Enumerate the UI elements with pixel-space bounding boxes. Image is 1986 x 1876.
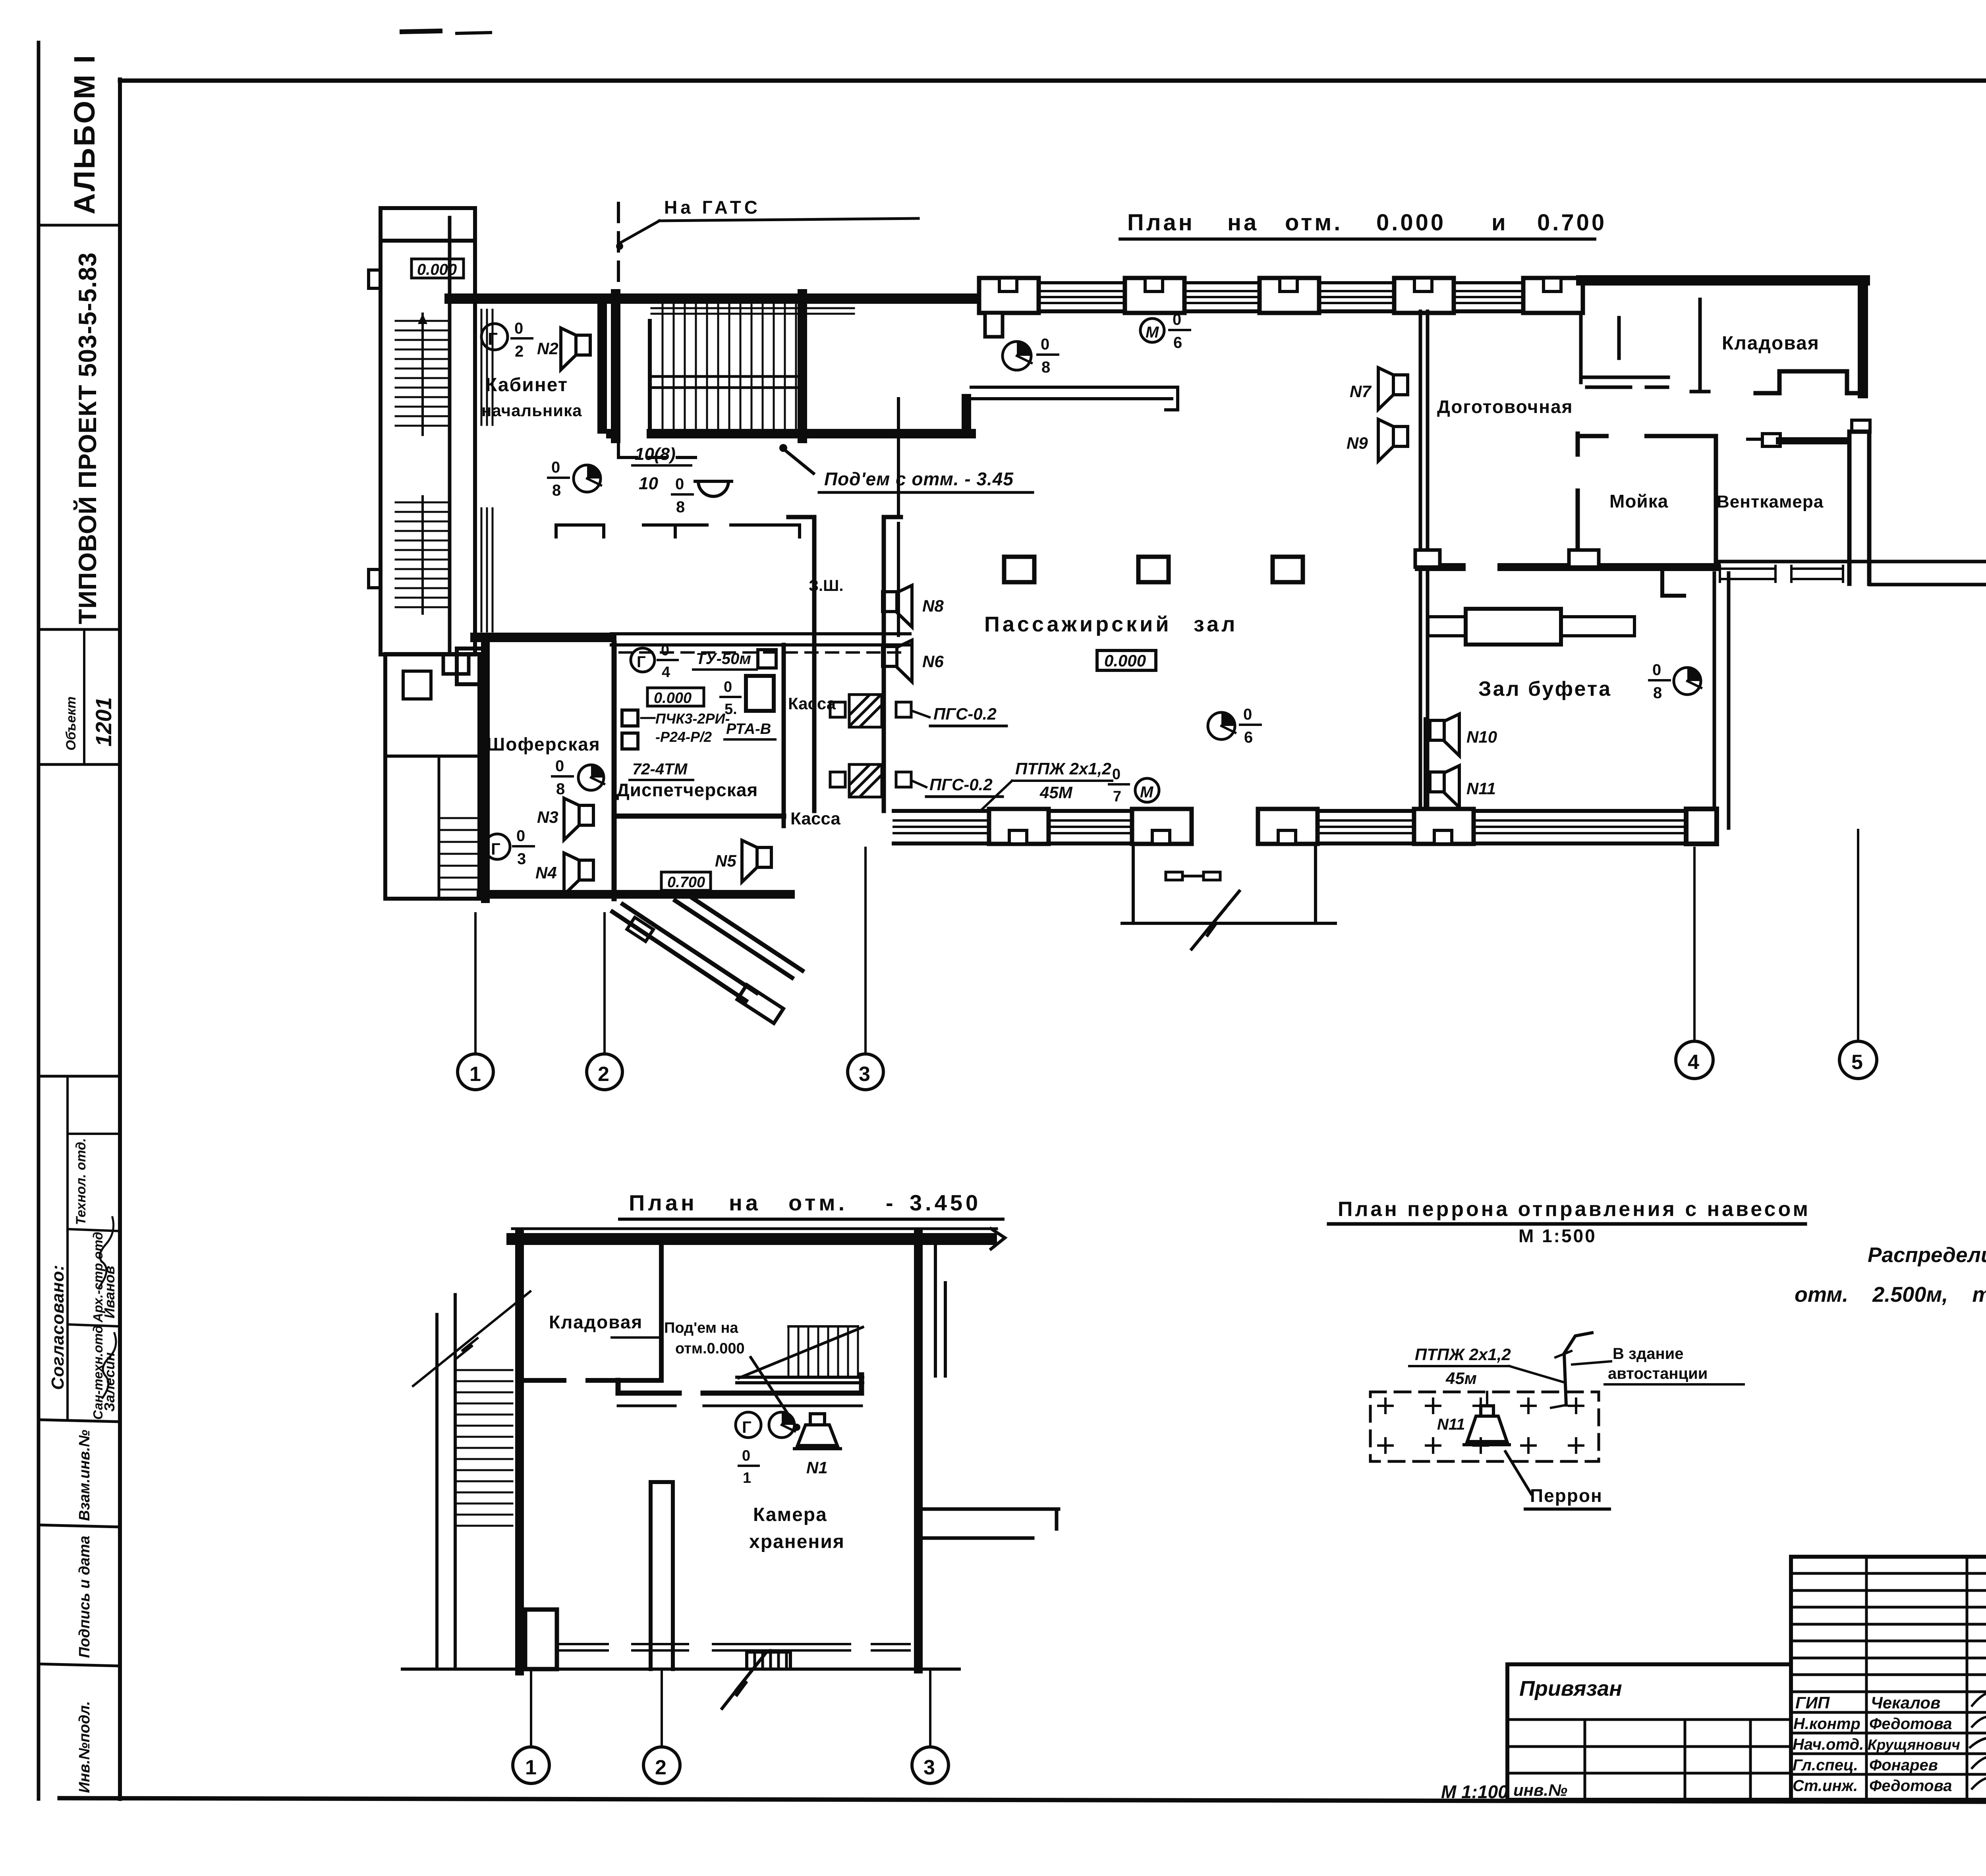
label 10(8)/10 — [635, 444, 676, 493]
svg-text:Кладовая: Кладовая — [1722, 333, 1820, 354]
svg-text:N6: N6 — [922, 652, 944, 671]
storeroom east wall — [1858, 280, 1868, 393]
office west window wall lines — [481, 310, 493, 631]
storeroom partition west — [1691, 299, 1709, 392]
clock symbol with 0/8 in office — [548, 459, 601, 499]
west wing lower stair hatch — [396, 496, 450, 614]
svg-text:N7: N7 — [1350, 382, 1372, 401]
signature grid rows — [1791, 1573, 1986, 1774]
podyem leader to N1 — [751, 1357, 795, 1425]
svg-text:Под'ем на: Под'ем на — [664, 1320, 738, 1336]
lower block west wall — [481, 637, 490, 899]
basement east upper stub — [935, 1238, 945, 1376]
entrance opening — [1182, 805, 1265, 847]
PTPZh perron label — [1409, 1345, 1563, 1388]
basement axis leader 3 — [929, 1671, 931, 1747]
svg-text:РТА-В: РТА-В — [726, 721, 771, 737]
office room label — [481, 374, 582, 420]
dispatcher north wall double — [611, 634, 910, 652]
storage room label — [749, 1504, 845, 1552]
west wing inner wall — [448, 218, 452, 654]
svg-text:Залесин: Залесин — [101, 1352, 118, 1412]
svg-text:ПТПЖ 2х1,2: ПТПЖ 2х1,2 — [1415, 1345, 1511, 1364]
svg-text:4: 4 — [1688, 1051, 1699, 1074]
svg-text:Пассажирский: Пассажирский — [984, 612, 1172, 636]
svg-text:4: 4 — [662, 664, 670, 681]
west annex outline — [385, 654, 479, 899]
svg-text:Зал буфета: Зал буфета — [1478, 677, 1612, 701]
basement bottom wall block — [525, 1610, 557, 1669]
hall mic circle M 0/6 — [1140, 311, 1190, 351]
svg-text:ПГС-0.2: ПГС-0.2 — [929, 775, 993, 794]
north wall of office wing — [450, 293, 981, 304]
svg-text:7: 7 — [1113, 788, 1121, 805]
svg-text:N8: N8 — [922, 596, 944, 615]
speaker N7 — [1350, 368, 1408, 409]
left strip rotated texts — [48, 54, 118, 1793]
svg-text:N9: N9 — [1347, 434, 1368, 452]
speaker N10 — [1430, 714, 1497, 756]
svg-text:0: 0 — [661, 642, 669, 659]
basement ground line — [402, 1668, 959, 1671]
speaker N8 — [883, 585, 944, 627]
svg-text:-: - — [886, 1190, 896, 1215]
corridor wall to hall — [971, 387, 1178, 410]
svg-text:АЛЬБОМ I: АЛЬБОМ I — [68, 54, 101, 214]
svg-text:Технол. отд.: Технол. отд. — [73, 1138, 89, 1225]
basement break symbol — [722, 1652, 767, 1708]
svg-text:В здание: В здание — [1613, 1345, 1684, 1363]
west wing left pier bumps — [369, 270, 381, 288]
svg-text:Иванов: Иванов — [101, 1266, 118, 1318]
top facade window band — [981, 283, 1581, 311]
facade pier 1 — [979, 278, 1039, 337]
svg-text:0: 0 — [516, 827, 525, 845]
svg-text:Диспетчерская: Диспетчерская — [616, 780, 758, 800]
basement west wall — [515, 1233, 524, 1671]
speaker wall stub in buffet — [1424, 719, 1427, 811]
svg-text:отм.: отм. — [1285, 210, 1343, 235]
svg-text:N4: N4 — [535, 863, 557, 882]
facade pier 2 — [1125, 278, 1184, 313]
svg-text:Фонарев: Фонарев — [1869, 1756, 1938, 1774]
cash partition — [782, 645, 786, 826]
svg-text:Камера: Камера — [753, 1504, 827, 1525]
basement internal stair — [737, 1326, 863, 1383]
svg-text:0: 0 — [555, 757, 564, 775]
speaker N5 — [715, 840, 771, 882]
svg-text:0.700: 0.700 — [667, 874, 705, 891]
hall column 2 — [1138, 557, 1169, 582]
south pier 4 — [1414, 809, 1474, 844]
office east wall — [597, 303, 607, 429]
svg-text:автостанции: автостанции — [1608, 1365, 1708, 1382]
cash hatch window 1 — [830, 695, 911, 727]
svg-text:Под'ем с отм. - 3.45: Под'ем с отм. - 3.45 — [824, 469, 1014, 489]
svg-text:Объект: Объект — [64, 697, 79, 751]
stair window band top — [651, 303, 854, 314]
radio circle G 0/1 — [736, 1412, 761, 1486]
left strip cell dividers — [39, 225, 120, 1666]
porch break symbol — [1192, 891, 1239, 949]
svg-text:2: 2 — [515, 343, 524, 360]
vestibule diagonal walls — [612, 894, 802, 1023]
svg-text:Кладовая: Кладовая — [549, 1312, 643, 1332]
svg-text:М: М — [1146, 324, 1159, 341]
svg-text:45М: 45М — [1039, 783, 1073, 802]
basement clock — [769, 1412, 795, 1438]
svg-text:0: 0 — [1173, 311, 1181, 328]
signature names — [1793, 1693, 1986, 1795]
bell symbol — [672, 475, 732, 516]
west wing bottom pier — [443, 654, 469, 674]
basement outer stair treads — [455, 1370, 512, 1526]
svg-text:0: 0 — [1112, 766, 1121, 783]
svg-text:3: 3 — [923, 1756, 935, 1779]
svg-text:Крущянович: Крущянович — [1868, 1737, 1960, 1753]
svg-text:1: 1 — [525, 1756, 537, 1779]
canopy pole — [1551, 1333, 1592, 1408]
svg-text:3: 3 — [517, 850, 526, 868]
speaker N2 — [537, 328, 590, 370]
svg-text:1: 1 — [743, 1470, 751, 1486]
radio circle G 0/4 — [631, 642, 678, 681]
svg-text:8: 8 — [676, 498, 685, 516]
basement mid partition below stairs — [618, 1375, 862, 1406]
svg-text:зал: зал — [1194, 612, 1238, 636]
svg-text:0: 0 — [724, 679, 732, 695]
basement thresholds — [559, 1644, 910, 1650]
buffet clock 0/8 — [1649, 661, 1701, 702]
RTA equipment box — [746, 676, 774, 711]
perron speaker N11 — [1437, 1392, 1509, 1445]
washroom north wall — [1576, 434, 1580, 562]
south pier 2 — [1132, 809, 1192, 844]
facade pier 5 — [1523, 278, 1583, 313]
v zdanie label — [1572, 1345, 1744, 1384]
svg-text:Г: Г — [488, 329, 498, 349]
grid circle 2 — [587, 1054, 622, 1090]
dispatcher south wall — [614, 814, 784, 819]
svg-text:N5: N5 — [715, 851, 736, 870]
signature grid columns — [1866, 1557, 1986, 1800]
0.000 level box top-left — [411, 259, 464, 278]
annex window square — [403, 671, 431, 699]
svg-text:на: на — [729, 1190, 761, 1215]
perron label — [1505, 1451, 1609, 1509]
basement door post — [747, 1650, 790, 1669]
svg-text:6: 6 — [1173, 334, 1182, 351]
speaker N4 — [535, 853, 593, 895]
svg-text:Перрон: Перрон — [1530, 1485, 1603, 1506]
passenger hall label — [984, 612, 1238, 636]
svg-text:-Р24-Р/2: -Р24-Р/2 — [655, 729, 712, 745]
speaker N1 — [794, 1414, 840, 1477]
buffet east wall — [1714, 573, 1729, 828]
svg-text:Кабинет: Кабинет — [485, 374, 568, 396]
svg-text:Подпись и дата: Подпись и дата — [76, 1536, 93, 1658]
svg-text:8: 8 — [552, 482, 561, 499]
hall level box 0.000 — [1097, 650, 1156, 670]
svg-text:2: 2 — [598, 1063, 609, 1086]
hall clock 0/6 center — [1208, 706, 1261, 746]
hall queue wall stubs — [556, 399, 898, 635]
annex divider — [385, 755, 479, 758]
svg-text:72-4ТМ: 72-4ТМ — [632, 760, 688, 778]
svg-text:0: 0 — [1652, 661, 1661, 679]
svg-text:Г: Г — [491, 840, 500, 858]
svg-text:0.000: 0.000 — [417, 261, 457, 278]
fraction 0/5 — [721, 679, 740, 718]
svg-text:8: 8 — [1041, 359, 1050, 376]
radio circle G 0/3 — [485, 827, 534, 868]
hall column 3 — [1273, 557, 1303, 582]
level box 0.700 — [661, 872, 711, 891]
svg-text:на: на — [1227, 210, 1259, 235]
basement stair break line — [413, 1291, 530, 1386]
basement grid circle 2 — [643, 1747, 680, 1783]
dispatcher level box 0.000 — [647, 688, 704, 706]
svg-text:Привязан: Привязан — [1519, 1677, 1622, 1700]
svg-text:Г: Г — [637, 653, 646, 671]
svg-text:0: 0 — [551, 459, 560, 476]
title block outer boxes — [1507, 1557, 1986, 1800]
svg-text:8: 8 — [1653, 684, 1662, 702]
svg-text:0.000: 0.000 — [1104, 651, 1146, 670]
svg-text:Н.контр: Н.контр — [1793, 1715, 1860, 1733]
washroom east wall — [1714, 436, 1718, 562]
svg-text:отм. 2.500м, телефонные розетк: отм. 2.500м, телефонные розетки установи… — [1795, 1283, 1986, 1307]
basement plan title — [629, 1190, 981, 1215]
NA GATS label — [616, 197, 918, 250]
signature squiggles in strip — [99, 1217, 116, 1398]
axis leader line 2 — [603, 913, 606, 1053]
south-east corner pier — [1686, 809, 1717, 844]
facade pier 4 — [1394, 278, 1454, 313]
svg-text:3.450: 3.450 — [910, 1190, 981, 1215]
svg-text:Инв.№подл.: Инв.№подл. — [76, 1701, 93, 1793]
entrance door leaves — [1166, 872, 1220, 880]
PGS-0.2 label 2 — [912, 775, 1003, 797]
lower block south wall — [481, 890, 790, 899]
TU-50m label — [693, 650, 776, 670]
svg-text:На ГАТС: На ГАТС — [664, 197, 761, 218]
svg-text:и: и — [1491, 210, 1508, 235]
basement east branch walls — [922, 1509, 1059, 1538]
svg-text:6: 6 — [1244, 729, 1253, 746]
stair inner landing wall — [648, 321, 652, 431]
svg-text:0: 0 — [1243, 706, 1252, 723]
basement grid circle 1 — [513, 1747, 549, 1783]
basement axis leader 2 — [661, 1671, 663, 1747]
ZSh shaft walls — [788, 517, 901, 811]
radio circle Г 0/2 — [481, 320, 532, 360]
svg-text:хранения: хранения — [749, 1531, 845, 1552]
vent chamber south windows — [1720, 566, 1843, 582]
entrance porch walls — [1122, 847, 1335, 923]
driver room clock 0/8 — [552, 757, 604, 798]
basement storeroom partition — [659, 1243, 664, 1378]
axis leader line 4 — [1693, 848, 1696, 1041]
svg-text:10(8): 10(8) — [635, 444, 676, 464]
svg-text:Чекалов: Чекалов — [1871, 1693, 1940, 1712]
south pier 1 — [989, 809, 1049, 844]
buffet counter — [1428, 617, 1634, 636]
perron plan title — [1338, 1198, 1810, 1246]
svg-text:отм.0.000: отм.0.000 — [675, 1340, 745, 1357]
svg-text:1201: 1201 — [91, 697, 116, 747]
hall column 1 — [1004, 557, 1034, 582]
wall below office — [475, 633, 612, 642]
svg-text:План: План — [629, 1190, 697, 1215]
svg-text:Г: Г — [742, 1418, 752, 1436]
svg-text:10: 10 — [639, 474, 658, 493]
svg-text:N3: N3 — [537, 808, 558, 826]
speaker N6 — [883, 640, 944, 682]
svg-text:0: 0 — [675, 475, 684, 493]
basement outer stair west wall — [435, 1314, 439, 1668]
leader Podyem s otm -3.45 — [779, 444, 1033, 492]
svg-text:Федотова: Федотова — [1869, 1777, 1952, 1795]
buffet north wall — [1419, 563, 1717, 571]
svg-text:З.Ш.: З.Ш. — [809, 577, 843, 594]
speaker N3 — [537, 798, 593, 840]
mic circle M 0/7 — [1109, 766, 1159, 805]
grid circle 4 — [1676, 1041, 1713, 1079]
svg-text:План перрона отправления с: План перрона отправления с навесом — [1338, 1198, 1810, 1221]
svg-text:0.000: 0.000 — [654, 690, 692, 706]
canopy corridor to axis B — [1662, 562, 1986, 843]
speaker N11 — [1430, 766, 1496, 807]
basement north wall — [512, 1233, 991, 1245]
svg-text:М 1:500: М 1:500 — [1518, 1226, 1597, 1246]
axis leader line 1 — [474, 913, 477, 1053]
svg-text:М: М — [1140, 784, 1154, 801]
PTPZh cable label — [981, 759, 1112, 810]
svg-text:N11: N11 — [1466, 779, 1496, 798]
svg-text:0.700: 0.700 — [1537, 210, 1607, 235]
grid circle 5 — [1839, 1041, 1877, 1079]
svg-text:ТИПОВОЙ ПРОЕКТ 503-5-5.83: ТИПОВОЙ ПРОЕКТ 503-5-5.83 — [73, 252, 102, 624]
svg-text:отм.: отм. — [788, 1190, 848, 1215]
svg-text:инв.№: инв.№ — [1513, 1781, 1567, 1799]
basement east wall — [914, 1233, 923, 1669]
axis leader line 5 — [1857, 830, 1859, 1041]
south facade band — [894, 811, 1714, 843]
svg-text:Шоферская: Шоферская — [487, 734, 601, 755]
svg-text:0: 0 — [1041, 336, 1049, 353]
svg-text:Гл.спец.: Гл.спец. — [1793, 1756, 1858, 1774]
svg-text:ПГС-0.2: ПГС-0.2 — [933, 704, 997, 723]
lower block west pier — [457, 648, 485, 684]
svg-text:Доготовочная: Доготовочная — [1437, 396, 1573, 417]
PGS-0.2 label 1 — [912, 704, 1007, 726]
signature squiggles — [1970, 1686, 1986, 1801]
svg-text:Венткамера: Венткамера — [1717, 492, 1824, 511]
driver/dispatcher partition — [612, 643, 617, 899]
hall clock 0/8 top — [1003, 336, 1058, 376]
svg-text:0: 0 — [514, 320, 523, 337]
south pier 3 — [1258, 809, 1318, 844]
storeroom inner step wall — [1756, 371, 1858, 393]
privyazan block — [1507, 1720, 1791, 1800]
annex stair hatch — [439, 756, 477, 899]
svg-text:2: 2 — [655, 1756, 667, 1779]
svg-text:Ст.инж.: Ст.инж. — [1793, 1777, 1858, 1795]
platform dashed outline — [1370, 1392, 1599, 1461]
svg-text:N2: N2 — [537, 339, 558, 358]
PChK3 labels with squares — [622, 710, 775, 749]
storeroom north wall — [1581, 275, 1865, 286]
svg-text:Согласовано:: Согласовано: — [48, 1264, 68, 1390]
cash hatch window 2 — [830, 764, 911, 797]
facade pier 3 — [1260, 278, 1319, 313]
axis leader line 3 — [864, 848, 867, 1053]
platform cross marks row 2 — [1378, 1438, 1583, 1453]
kitchen west wall — [1420, 311, 1428, 811]
svg-text:8: 8 — [556, 780, 565, 798]
basement grid circle 3 — [912, 1747, 949, 1783]
podyem label — [664, 1320, 745, 1357]
svg-text:Мойка: Мойка — [1609, 491, 1668, 511]
svg-text:ПЧК3-2РИ-: ПЧК3-2РИ- — [655, 710, 730, 727]
svg-text:Распределительные кабели проло: Распределительные кабели проложить по ст… — [1868, 1243, 1986, 1267]
vent chamber east thick wall — [1849, 420, 1870, 584]
basement center pillar — [651, 1482, 673, 1669]
grid circle 3 — [848, 1054, 883, 1090]
svg-text:начальника: начальника — [481, 401, 582, 420]
svg-text:М 1:100: М 1:100 — [1441, 1781, 1508, 1802]
svg-text:N1: N1 — [806, 1458, 828, 1477]
grid circle 1 — [458, 1054, 493, 1090]
svg-text:ТУ-50м: ТУ-50м — [696, 650, 751, 668]
sheet top small dashes — [402, 31, 491, 33]
main stair tread hatch — [651, 302, 798, 431]
svg-text:1: 1 — [469, 1063, 481, 1086]
vent chamber north wall — [1779, 437, 1847, 444]
svg-text:0: 0 — [742, 1448, 750, 1464]
west outside stair wing outline — [381, 208, 475, 654]
svg-text:Нач.отд.: Нач.отд. — [1793, 1736, 1864, 1753]
svg-text:5: 5 — [1851, 1051, 1863, 1074]
svg-text:0.000: 0.000 — [1376, 210, 1446, 235]
storeroom small partitions — [1581, 315, 1668, 387]
svg-text:ПТПЖ 2х1,2: ПТПЖ 2х1,2 — [1015, 759, 1111, 778]
svg-text:ГИП: ГИП — [1795, 1693, 1830, 1712]
dashed riser line to GATS — [618, 203, 699, 457]
main stair block walls — [611, 294, 620, 438]
svg-text:Взам.инв.№: Взам.инв.№ — [76, 1430, 93, 1521]
svg-text:3: 3 — [859, 1063, 870, 1086]
svg-text:45м: 45м — [1445, 1369, 1477, 1388]
basement axis leader 1 — [530, 1671, 532, 1747]
svg-text:N11: N11 — [1437, 1416, 1465, 1433]
speaker N9 — [1347, 419, 1408, 461]
platform cross marks row 1 — [1378, 1399, 1583, 1413]
plan title — [1127, 210, 1607, 235]
svg-text:Федотова: Федотова — [1869, 1715, 1952, 1733]
72-4TM label — [630, 760, 693, 780]
west wing upper stair hatch — [396, 314, 450, 435]
svg-text:N10: N10 — [1466, 728, 1497, 746]
svg-text:План: План — [1127, 210, 1195, 235]
